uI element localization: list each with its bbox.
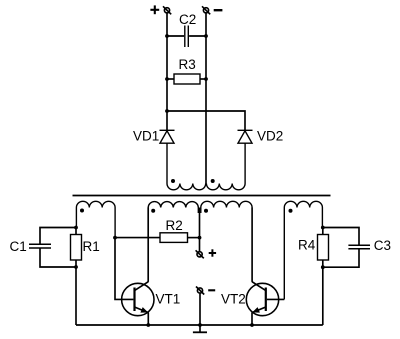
capacitor C2 [167,26,206,48]
polarity dot winding VI [289,209,293,213]
svg-text:VT1: VT1 [156,291,181,306]
wire winding III right to VT1 base [115,238,133,300]
wire bottom rail [76,324,323,326]
label - (top) [214,9,223,11]
svg-text:R4: R4 [298,238,316,253]
label + (mid) [209,249,216,256]
label - (mid) [208,289,215,291]
wire R4 to rail [322,267,324,325]
label + (top) [150,5,159,14]
diode VD1 [160,130,175,143]
node R1 bottom [74,265,78,269]
node C2 left [165,34,169,38]
winding III (feedback left) [76,201,115,237]
svg-text:R1: R1 [83,239,100,254]
node C2 right [204,34,208,38]
wire to VD2 [167,111,245,130]
svg-text:C3: C3 [374,238,391,253]
svg-text:C2: C2 [179,12,196,27]
wire VT2 base [267,298,284,300]
resistor R2 [115,233,200,243]
node R3 right [204,77,208,81]
winding I (primary left) [167,143,206,190]
svg-text:VD2: VD2 [257,128,283,143]
node R1 top [74,226,78,230]
svg-text:R3: R3 [179,57,196,72]
wire VT1 collector [147,208,149,282]
transistor VT1 [122,282,154,316]
resistor R1 [71,228,82,268]
winding VI (feedback right) [284,201,322,299]
terminal X4 (-) mid [196,287,204,295]
capacitor C3 [323,228,370,268]
wire right rail [205,13,207,184]
node R3 left [165,77,169,81]
node ground on rail [198,323,202,327]
wire terminal X4 to rail [199,293,201,332]
svg-text:R2: R2 [166,218,183,233]
resistor R4 [318,228,329,268]
svg-text:VT2: VT2 [221,291,246,306]
terminal X3 (+) mid [196,250,204,258]
node R4 top [321,226,325,230]
node R2 right [198,236,202,240]
terminal X1 (+) top left [163,6,171,14]
terminal X2 (-) top right [202,6,210,14]
node VD branch [165,109,169,113]
wire VT2 collector [251,208,253,282]
polarity dot winding IV [151,209,155,213]
node VT2 emitter rail [250,323,254,327]
polarity dot winding I [171,179,175,183]
ground [193,331,207,333]
svg-text:VD1: VD1 [133,128,159,143]
diode VD2 [238,130,253,143]
wire R1 to rail [75,267,77,325]
wire left rail [166,13,168,130]
wire center tap down [199,208,201,252]
node R4 bottom [321,265,325,269]
winding II (primary right) [206,144,245,190]
node R2 left [113,236,117,240]
wire VT2 emitter [251,312,253,325]
wire VT1 emitter [147,312,149,325]
resistor R3 [167,74,206,84]
winding IV (secondary left half) [148,202,198,213]
node VT1 emitter rail [146,323,150,327]
polarity dot winding V [204,209,208,213]
polarity dot winding II [211,179,215,183]
transformer core [73,195,331,197]
winding V (secondary right half) [201,201,252,213]
capacitor C1 [29,228,76,268]
svg-text:C1: C1 [10,239,27,254]
transistor VT2 [246,282,278,316]
polarity dot winding III [80,209,84,213]
